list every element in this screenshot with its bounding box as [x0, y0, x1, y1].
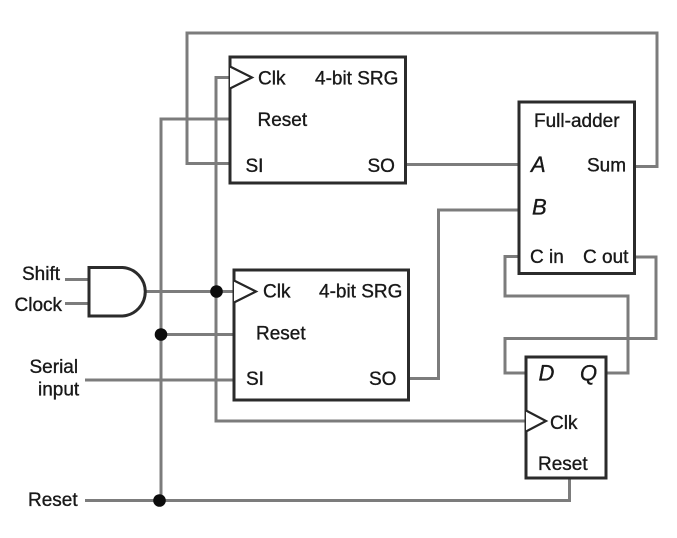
- svg-text:Clk: Clk: [550, 413, 578, 434]
- svg-text:Reset: Reset: [28, 490, 78, 511]
- svg-text:Reset: Reset: [256, 324, 306, 345]
- svg-text:SO: SO: [369, 369, 396, 390]
- svg-text:A: A: [529, 152, 546, 177]
- svg-text:Q: Q: [580, 361, 597, 386]
- svg-text:Clock: Clock: [15, 295, 63, 316]
- svg-text:SI: SI: [246, 369, 264, 390]
- svg-text:C in: C in: [530, 247, 564, 268]
- svg-text:Serial: Serial: [30, 357, 79, 378]
- svg-text:Clk: Clk: [263, 282, 291, 303]
- svg-text:Full-adder: Full-adder: [534, 111, 620, 132]
- svg-text:Reset: Reset: [258, 110, 308, 131]
- svg-text:4-bit SRG: 4-bit SRG: [315, 69, 398, 90]
- svg-text:input: input: [38, 380, 80, 401]
- svg-text:Reset: Reset: [538, 454, 588, 475]
- svg-text:Clk: Clk: [258, 69, 286, 90]
- svg-text:4-bit SRG: 4-bit SRG: [319, 282, 402, 303]
- svg-text:B: B: [532, 195, 547, 220]
- svg-text:Shift: Shift: [22, 264, 61, 285]
- svg-text:C out: C out: [583, 247, 629, 268]
- svg-text:SO: SO: [368, 156, 395, 177]
- svg-text:D: D: [539, 361, 555, 386]
- svg-text:Sum: Sum: [587, 156, 626, 177]
- svg-text:SI: SI: [246, 156, 264, 177]
